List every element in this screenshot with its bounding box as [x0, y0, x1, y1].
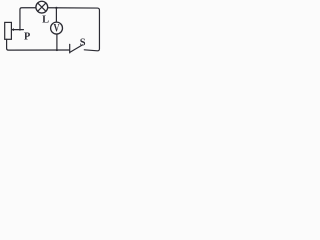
- svg-text:L: L: [42, 15, 49, 26]
- svg-text:P: P: [24, 31, 30, 42]
- svg-text:S: S: [80, 38, 86, 49]
- svg-text:V: V: [54, 22, 61, 35]
